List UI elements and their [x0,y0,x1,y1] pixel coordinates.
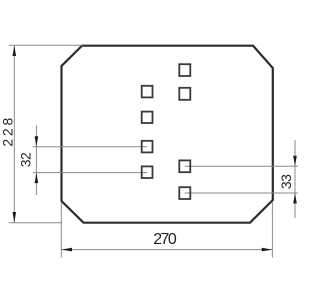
svg-text:270: 270 [153,231,177,248]
svg-text:228: 228 [0,115,15,147]
svg-text:33: 33 [278,174,294,189]
svg-text:32: 32 [18,152,34,167]
